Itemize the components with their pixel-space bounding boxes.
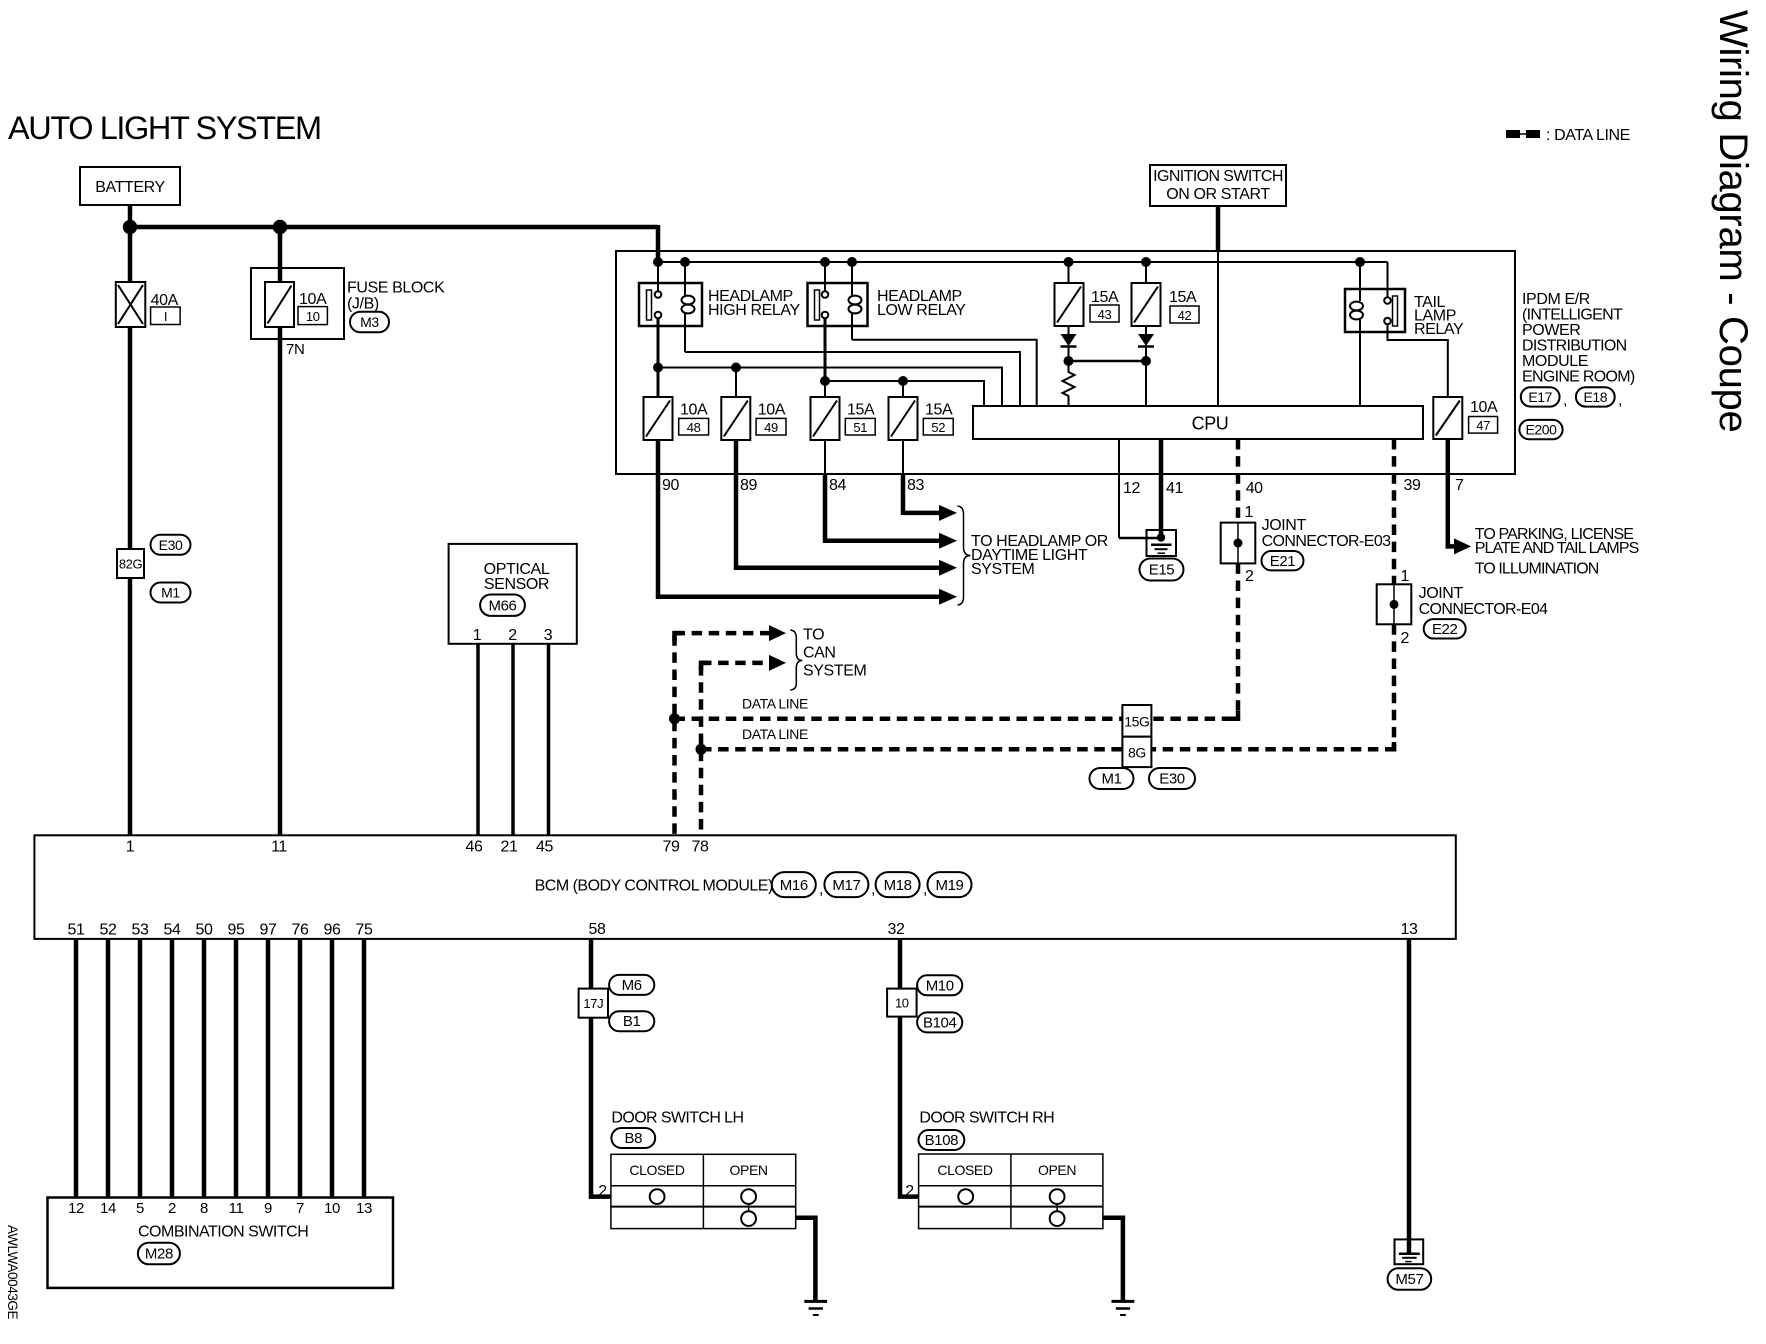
svg-text:7: 7 — [1455, 477, 1464, 494]
svg-text:2: 2 — [508, 627, 517, 644]
svg-text:15G: 15G — [1124, 714, 1149, 730]
svg-text:47: 47 — [1476, 418, 1490, 433]
svg-text:BCM (BODY CONTROL MODULE): BCM (BODY CONTROL MODULE) — [535, 878, 773, 895]
svg-text:15A: 15A — [847, 402, 875, 419]
svg-text:LOW RELAY: LOW RELAY — [877, 302, 966, 319]
svg-text:,: , — [1563, 392, 1567, 409]
svg-text:42: 42 — [1178, 308, 1192, 323]
svg-text:11: 11 — [229, 1200, 244, 1217]
svg-text:1: 1 — [126, 839, 135, 856]
svg-text:5: 5 — [136, 1200, 144, 1217]
svg-text:54: 54 — [164, 922, 181, 939]
svg-text:46: 46 — [466, 839, 483, 856]
svg-text:M16: M16 — [780, 877, 808, 894]
svg-text:51: 51 — [68, 922, 85, 939]
svg-text:52: 52 — [100, 922, 117, 939]
svg-text:2: 2 — [905, 1183, 914, 1200]
svg-text:,: , — [923, 881, 927, 898]
svg-text:M57: M57 — [1395, 1271, 1423, 1288]
svg-text:CLOSED: CLOSED — [937, 1162, 992, 1178]
svg-text:15A: 15A — [925, 402, 953, 419]
svg-text:83: 83 — [907, 477, 924, 494]
svg-text:CPU: CPU — [1192, 414, 1229, 434]
svg-text:9: 9 — [264, 1200, 272, 1217]
svg-text:E15: E15 — [1149, 562, 1175, 579]
svg-text:IGNITION SWITCH: IGNITION SWITCH — [1153, 168, 1283, 185]
svg-text:DISTRIBUTION: DISTRIBUTION — [1522, 338, 1627, 355]
svg-text:AWLWA0043GE: AWLWA0043GE — [5, 1225, 20, 1320]
svg-text:M6: M6 — [622, 977, 642, 994]
svg-text:M17: M17 — [832, 877, 860, 894]
svg-text:1: 1 — [1245, 504, 1254, 521]
svg-text:78: 78 — [692, 839, 709, 856]
svg-text:15A: 15A — [1169, 289, 1197, 306]
svg-text:SENSOR: SENSOR — [484, 576, 549, 593]
svg-text:89: 89 — [740, 477, 757, 494]
svg-text:32: 32 — [888, 921, 905, 938]
svg-text:OPEN: OPEN — [1038, 1162, 1076, 1178]
svg-text:DATA LINE: DATA LINE — [742, 726, 808, 742]
svg-text:21: 21 — [501, 839, 518, 856]
svg-text:(INTELLIGENT: (INTELLIGENT — [1522, 307, 1623, 324]
svg-text:M28: M28 — [145, 1246, 173, 1263]
svg-text:10A: 10A — [758, 402, 786, 419]
svg-text:10: 10 — [306, 309, 320, 324]
svg-text:IPDM E/R: IPDM E/R — [1522, 291, 1590, 308]
svg-text:79: 79 — [663, 839, 680, 856]
svg-text:2: 2 — [1401, 630, 1410, 647]
svg-text:12: 12 — [1123, 480, 1140, 497]
svg-text:2: 2 — [1245, 568, 1254, 585]
svg-text:1: 1 — [1401, 568, 1410, 585]
svg-text:10A: 10A — [1470, 399, 1498, 416]
svg-text:COMBINATION SWITCH: COMBINATION SWITCH — [138, 1224, 308, 1241]
svg-text:I: I — [164, 309, 167, 324]
svg-text:53: 53 — [132, 922, 149, 939]
svg-text:75: 75 — [356, 922, 373, 939]
svg-text:52: 52 — [931, 420, 945, 435]
svg-text:1: 1 — [473, 627, 482, 644]
svg-text:15A: 15A — [1091, 289, 1119, 306]
svg-text:2: 2 — [598, 1183, 607, 1200]
svg-text:45: 45 — [536, 839, 553, 856]
svg-text:TO ILLUMINATION: TO ILLUMINATION — [1475, 561, 1599, 578]
svg-text:49: 49 — [764, 420, 778, 435]
svg-text:14: 14 — [100, 1200, 116, 1217]
svg-text:PLATE AND TAIL LAMPS: PLATE AND TAIL LAMPS — [1475, 540, 1639, 557]
svg-text:M19: M19 — [936, 877, 964, 894]
svg-text:JOINT: JOINT — [1262, 517, 1307, 534]
svg-text:10A: 10A — [680, 402, 708, 419]
svg-text:M10: M10 — [926, 977, 954, 994]
svg-text:10: 10 — [324, 1200, 340, 1217]
svg-text:M1: M1 — [161, 585, 180, 601]
svg-text:10: 10 — [895, 996, 909, 1011]
svg-text:DATA LINE: DATA LINE — [742, 696, 808, 712]
svg-text:,: , — [1618, 392, 1622, 409]
svg-text:DOOR SWITCH RH: DOOR SWITCH RH — [919, 1110, 1054, 1127]
svg-text:,: , — [819, 881, 823, 898]
svg-text:M66: M66 — [489, 598, 517, 615]
svg-text:(J/B): (J/B) — [347, 296, 379, 313]
svg-text:B1: B1 — [623, 1013, 641, 1030]
svg-text:39: 39 — [1404, 477, 1421, 494]
svg-text:HIGH RELAY: HIGH RELAY — [708, 302, 800, 319]
svg-text:CLOSED: CLOSED — [629, 1162, 684, 1178]
svg-text:B104: B104 — [923, 1014, 956, 1031]
svg-text:Wiring Diagram - Coupe: Wiring Diagram - Coupe — [1711, 10, 1755, 432]
svg-text:DOOR SWITCH LH: DOOR SWITCH LH — [611, 1110, 743, 1127]
svg-text:RELAY: RELAY — [1414, 321, 1464, 338]
svg-text:FUSE BLOCK: FUSE BLOCK — [347, 280, 445, 297]
svg-text:12: 12 — [68, 1200, 84, 1217]
svg-text:90: 90 — [662, 477, 679, 494]
svg-text:JOINT: JOINT — [1419, 585, 1464, 602]
svg-text:97: 97 — [260, 922, 277, 939]
svg-text:10A: 10A — [299, 291, 327, 308]
svg-text:M1: M1 — [1101, 771, 1121, 788]
svg-text:95: 95 — [228, 922, 245, 939]
svg-text:76: 76 — [292, 922, 309, 939]
svg-text:7: 7 — [296, 1200, 304, 1217]
svg-text:CONNECTOR-E03: CONNECTOR-E03 — [1262, 533, 1392, 550]
svg-text:96: 96 — [324, 922, 341, 939]
svg-text:MODULE: MODULE — [1522, 353, 1588, 370]
svg-text:OPEN: OPEN — [730, 1162, 768, 1178]
svg-text:POWER: POWER — [1522, 322, 1580, 339]
svg-text:E22: E22 — [1432, 621, 1458, 638]
svg-text:8: 8 — [200, 1200, 208, 1217]
svg-text:SYSTEM: SYSTEM — [803, 663, 866, 680]
svg-text:B108: B108 — [925, 1132, 958, 1149]
svg-text:48: 48 — [687, 420, 701, 435]
svg-text:BATTERY: BATTERY — [95, 179, 165, 196]
svg-text:E30: E30 — [1159, 771, 1185, 788]
svg-text:82G: 82G — [119, 557, 143, 572]
svg-text:E200: E200 — [1525, 422, 1557, 438]
svg-text:84: 84 — [829, 477, 846, 494]
svg-text:,: , — [871, 881, 875, 898]
svg-text:CONNECTOR-E04: CONNECTOR-E04 — [1419, 601, 1549, 618]
svg-text:M18: M18 — [884, 877, 912, 894]
svg-text:E21: E21 — [1270, 553, 1296, 570]
svg-text:41: 41 — [1166, 480, 1183, 497]
svg-text:13: 13 — [356, 1200, 372, 1217]
svg-text:B8: B8 — [625, 1130, 643, 1147]
svg-text:50: 50 — [196, 922, 213, 939]
svg-text:M3: M3 — [360, 314, 379, 330]
svg-text:: DATA LINE: : DATA LINE — [1546, 127, 1630, 144]
svg-text:3: 3 — [544, 627, 553, 644]
svg-text:2: 2 — [168, 1200, 176, 1217]
svg-text:SYSTEM: SYSTEM — [971, 561, 1034, 578]
svg-text:17J: 17J — [583, 996, 603, 1011]
svg-text:58: 58 — [589, 921, 606, 938]
svg-text:7N: 7N — [286, 341, 304, 358]
svg-text:8G: 8G — [1128, 745, 1146, 761]
svg-text:51: 51 — [853, 420, 867, 435]
svg-text:CAN: CAN — [803, 645, 836, 662]
svg-text:TO: TO — [803, 627, 824, 644]
svg-text:ENGINE ROOM): ENGINE ROOM) — [1522, 369, 1635, 386]
svg-text:40: 40 — [1246, 480, 1263, 497]
svg-text:13: 13 — [1401, 921, 1418, 938]
svg-text:E18: E18 — [1583, 389, 1607, 405]
svg-text:E30: E30 — [159, 537, 183, 553]
svg-text:AUTO LIGHT SYSTEM: AUTO LIGHT SYSTEM — [8, 110, 321, 146]
svg-text:43: 43 — [1098, 307, 1112, 322]
svg-text:ON OR START: ON OR START — [1166, 186, 1270, 203]
svg-text:11: 11 — [271, 839, 287, 856]
svg-text:E17: E17 — [1528, 389, 1552, 405]
